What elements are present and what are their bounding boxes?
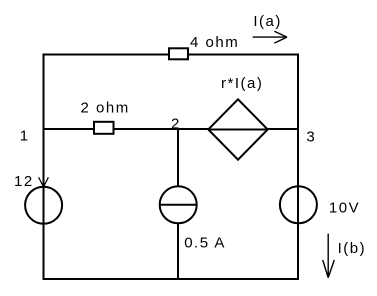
svg-text:2: 2	[171, 116, 181, 133]
svg-text:I(b): I(b)	[338, 240, 367, 257]
svg-text:12: 12	[14, 173, 34, 190]
svg-text:0.5 A: 0.5 A	[184, 235, 226, 252]
current arrow I(a)	[253, 31, 287, 43]
wire middle rail node1 to node3	[44, 128, 299, 130]
current source 0.5 A circle	[160, 186, 197, 223]
voltage source 12 V circle	[25, 187, 62, 224]
svg-text:1: 1	[20, 128, 30, 145]
wire top rail	[43, 54, 300, 56]
wire left rail	[43, 54, 45, 281]
wire node2 branch	[177, 129, 179, 279]
label 12	[14, 173, 34, 190]
wire right rail	[297, 54, 299, 281]
voltage source 10V circle	[280, 186, 317, 223]
svg-text:I(a): I(a)	[253, 13, 282, 30]
label 2 ohm	[81, 100, 130, 117]
label I(b)	[338, 240, 367, 257]
label 0.5 A	[184, 235, 226, 252]
current arrow I(b)	[323, 234, 335, 278]
svg-text:2 ohm: 2 ohm	[81, 100, 130, 117]
svg-text:10V: 10V	[329, 200, 360, 217]
label 10V	[329, 200, 360, 217]
arrowhead 12 V polarity	[39, 177, 49, 187]
svg-text:3: 3	[306, 128, 316, 145]
node 1 label	[20, 128, 30, 145]
dependent source r*I(a) diamond	[208, 99, 267, 159]
svg-text:r*I(a): r*I(a)	[221, 75, 263, 92]
wire bottom rail	[43, 278, 300, 280]
resistor 2 ohm	[94, 122, 114, 134]
label 4 ohm	[190, 34, 239, 51]
label r*I(a)	[221, 75, 263, 92]
node 2 label	[171, 116, 181, 133]
label I(a)	[253, 13, 282, 30]
svg-text:4 ohm: 4 ohm	[190, 34, 239, 51]
node 3 label	[306, 128, 316, 145]
resistor 4 ohm	[169, 48, 188, 59]
